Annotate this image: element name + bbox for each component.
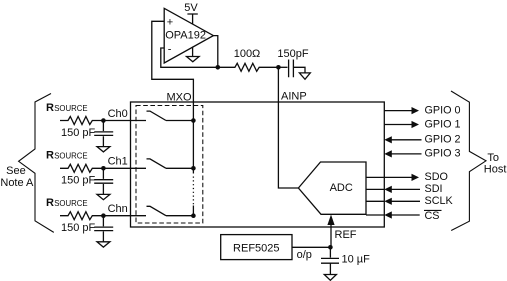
svg-text:150pF: 150pF [277, 48, 308, 60]
svg-text:To: To [487, 152, 499, 164]
svg-text:Ch1: Ch1 [108, 156, 128, 168]
svg-text:o/p: o/p [297, 249, 312, 261]
svg-text:SOURCE: SOURCE [54, 152, 87, 161]
svg-text:150 pF: 150 pF [61, 127, 96, 139]
svg-text:GPIO 3: GPIO 3 [425, 148, 461, 160]
svg-text:Chn: Chn [108, 203, 128, 215]
svg-text:+: + [167, 16, 173, 28]
svg-text:MXO: MXO [167, 91, 193, 103]
svg-text:R: R [46, 197, 54, 209]
svg-text:GPIO 2: GPIO 2 [425, 134, 461, 146]
svg-text:10 µF: 10 µF [342, 254, 371, 266]
svg-text:CS: CS [425, 210, 440, 222]
svg-text:REF: REF [335, 229, 357, 241]
svg-text:ADC: ADC [330, 182, 353, 194]
svg-text:SOURCE: SOURCE [54, 199, 87, 208]
svg-text:SDO: SDO [425, 171, 448, 183]
svg-text:Host: Host [484, 164, 507, 176]
svg-text:R: R [46, 102, 54, 114]
svg-text:5V: 5V [184, 2, 198, 14]
svg-text:SDI: SDI [425, 183, 443, 195]
svg-text:OPA192: OPA192 [165, 30, 206, 42]
svg-text:AINP: AINP [281, 91, 307, 103]
svg-text:GPIO 0: GPIO 0 [425, 104, 461, 116]
svg-text:150 pF: 150 pF [61, 222, 96, 234]
svg-text:GPIO 1: GPIO 1 [425, 118, 461, 130]
svg-text:SOURCE: SOURCE [54, 104, 87, 113]
svg-text:Ch0: Ch0 [108, 108, 128, 120]
svg-text:-: - [168, 43, 172, 55]
svg-text:R: R [46, 150, 54, 162]
svg-text:REF5025: REF5025 [233, 243, 279, 255]
svg-text:Note A: Note A [0, 177, 34, 189]
svg-text:See: See [6, 165, 26, 177]
svg-text:SCLK: SCLK [425, 195, 454, 207]
svg-text:100Ω: 100Ω [234, 48, 261, 60]
svg-text:150 pF: 150 pF [61, 175, 96, 187]
